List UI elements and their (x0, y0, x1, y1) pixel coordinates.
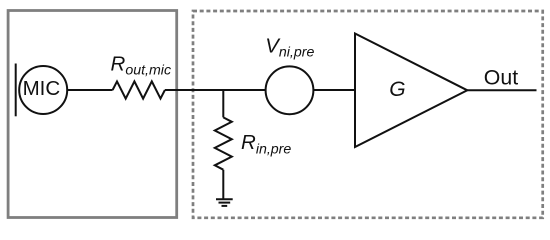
resistor R_in,pre (215, 117, 232, 169)
svg-text:Out: Out (484, 65, 518, 89)
microphone element line (15, 64, 17, 117)
noise source V_ni,pre circle (266, 66, 314, 114)
node junction wire down (222, 90, 224, 117)
wire resistor to ground (222, 170, 224, 200)
resistor R_out,mic (113, 81, 165, 98)
svg-text:G: G (389, 78, 405, 101)
mic model box (solid gray) (8, 11, 177, 218)
preamp box (dashed gray) (193, 11, 543, 218)
ground (216, 199, 233, 206)
wire Rout,mic to node and to Vni circle (165, 89, 266, 91)
op-amp G triangle (355, 34, 467, 148)
svg-text:MIC: MIC (23, 77, 61, 100)
microphone circle MIC (19, 66, 67, 114)
output wire (467, 89, 536, 91)
wire Vni to amp (313, 89, 356, 91)
wire mic to Rout,mic (67, 89, 112, 91)
